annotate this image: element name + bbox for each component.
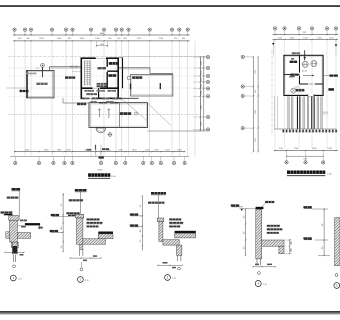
detail 5 level text 24.20 [303, 237, 311, 239]
right plan left vertical dimension band [252, 57, 254, 152]
right plan slope label [289, 76, 294, 78]
left wing thick left wall [26, 70, 28, 98]
left plan right dimension band [199, 57, 201, 132]
detail 4 level text 32.45 [231, 204, 239, 206]
top border line [0, 5, 340, 7]
detail 1 gutter bottom hatch [17, 233, 30, 239]
parapet connector wing to core [49, 67, 51, 71]
detail 5 level text 32.45 [303, 206, 311, 208]
detail 2 roof slab hatch [98, 234, 113, 239]
detail 1 small annotation right of cap [20, 220, 27, 222]
detail 2 reference bubble [78, 277, 84, 283]
svg-text:150: 150 [243, 216, 245, 219]
detail 4 right side dimension [289, 239, 291, 254]
detail 1 lower beam dark fill [13, 246, 18, 254]
right plan internal horizontal wall left [284, 74, 300, 76]
right plan fan symbol 2 [311, 61, 317, 67]
svg-text:980: 980 [255, 90, 257, 93]
right plan left outside level mark [272, 40, 274, 55]
left plan vertical grid lines [14, 41, 16, 157]
detail 3 roof slab black bar [175, 231, 196, 233]
detail 1 bottom dimension [5, 251, 24, 253]
left plan top dimension band [13, 34, 190, 36]
core internal horizontal wall upper [107, 70, 118, 72]
lower room column centerline marks [98, 109, 100, 118]
detail 4 slab hatch [262, 240, 284, 246]
detail 3 parapet wall hatch [159, 222, 163, 242]
detail 1 reference bubble 1 [10, 275, 16, 281]
bottom border line [0, 311, 340, 313]
right plan level flag right outside lower [328, 88, 334, 91]
svg-text:1:20: 1:20 [172, 278, 176, 280]
detail 4 down leg hatch [279, 246, 284, 254]
svg-text:250: 250 [140, 240, 142, 243]
detail 2 second annotation [69, 199, 83, 201]
right plan vertical grid lines [274, 40, 276, 149]
right plan top grid bubbles [274, 30, 276, 34]
core bottom band extension right [118, 97, 138, 99]
left plan bottom boundary line [148, 130, 207, 132]
detail 1 leader line [18, 191, 20, 216]
svg-text:160: 160 [243, 232, 245, 235]
svg-text:250: 250 [61, 246, 63, 249]
left wing parapet outer wall [27, 70, 54, 98]
lower room internal wall [119, 103, 121, 128]
detail 1 top annotation [12, 188, 21, 190]
svg-text:450: 450 [61, 204, 63, 207]
right plan dash-dot boundary line [271, 50, 273, 135]
core lower annotation rows [97, 83, 107, 85]
left plan horizontal grid line row E [8, 95, 80, 97]
svg-text:120: 120 [322, 224, 324, 227]
detail 2 parapet wall hatch [77, 218, 83, 244]
core dim text row mid [85, 90, 95, 92]
dimension text row under core bottom [82, 98, 90, 100]
svg-text:300: 300 [61, 227, 63, 230]
left plan title roof plan [88, 173, 110, 177]
roof slope diagonal right of lower room [148, 104, 171, 126]
roof vent semicircle [96, 128, 106, 133]
left wing top annotation [26, 73, 37, 75]
detail 2 level text 32.45 [51, 214, 59, 216]
middle room vent circle symbol [127, 76, 130, 79]
svg-text:1500: 1500 [201, 71, 203, 75]
svg-text:7128: 7128 [303, 158, 307, 160]
left plan right grid bubbles [206, 55, 209, 58]
right plan louver dark pipe group 2 [311, 96, 312, 129]
svg-text:18900: 18900 [97, 170, 103, 172]
svg-text:7128: 7128 [302, 32, 306, 34]
detail 1 wall pipes below [12, 255, 14, 263]
left plan bottom full grid line [10, 155, 189, 157]
detail 4 top annotation [265, 201, 274, 203]
detail 2 cap annotations dark [66, 212, 79, 214]
detail 4 right annotation rows [267, 225, 280, 227]
detail 3 parapet cap hatch [157, 218, 163, 222]
right plan total dimension line [287, 155, 324, 157]
right plan machine room outer walls [284, 55, 323, 95]
left plan horizontal grid line row B [8, 67, 207, 69]
svg-text:1500: 1500 [201, 122, 203, 126]
detail 2 roof slab black bar [98, 232, 113, 234]
svg-text:300: 300 [140, 230, 142, 233]
svg-text:150: 150 [243, 247, 245, 250]
core internal horizontal wall lower [81, 87, 118, 89]
detail 2 top annotation [75, 189, 87, 191]
left wing bubble leader [42, 67, 44, 77]
detail 3 reference bubble [165, 275, 171, 281]
right plan internal horizontal wall right [300, 83, 323, 85]
right plan lower left dim lines [274, 96, 276, 129]
stepped parapet lower run [150, 72, 173, 74]
svg-text:1500: 1500 [201, 84, 203, 88]
detail 2 right annotation rows [87, 218, 100, 220]
detail 2 parapet cap hatch [76, 214, 84, 218]
detail 4 small circle [258, 272, 261, 275]
svg-text:450: 450 [140, 205, 142, 208]
right plan water tank label [295, 89, 304, 92]
middle room label [132, 76, 142, 79]
svg-text:2400: 2400 [100, 44, 104, 46]
core internal vertical wall [106, 58, 108, 88]
left plan bottom dimension band [14, 151, 185, 153]
left plan dashed reference line [8, 114, 200, 116]
core room label water tank [108, 74, 116, 77]
connector annotation text [70, 66, 78, 68]
stair ladder pattern [84, 61, 86, 86]
right plan roof level mark on top wall [304, 50, 306, 60]
detail 1 parapet wall hatch [10, 220, 18, 242]
middle room column mark left [130, 84, 132, 90]
detail 4 vertical dimension line [245, 209, 247, 256]
detail 3 vertical dimension line [141, 196, 143, 251]
detail 1 slab end tick and text [39, 225, 41, 229]
left plan bottom grid bubbles [14, 156, 16, 161]
detail 1 second annotation [7, 197, 19, 199]
detail 4 reference bubble 4 [255, 281, 261, 287]
detail 1 lower wall lines [12, 242, 14, 254]
right plan waterproof mortar label on wall [291, 74, 299, 76]
detail 3 small circle [178, 267, 181, 270]
left plan bottom band center cluster [95, 145, 97, 157]
detail 2 small circle [80, 268, 83, 271]
lower room detail bubble [134, 112, 137, 115]
left wing parapet inner wall line [28, 72, 53, 97]
right plan louver bottom line [274, 128, 337, 130]
detail 5 reference bubble clipped [334, 283, 340, 289]
svg-text:1500: 1500 [201, 78, 203, 82]
lower stair room walls [89, 103, 148, 128]
detail 4 wall cap dark [256, 207, 264, 209]
left plan horizontal grid line row C [8, 87, 207, 89]
svg-text:1500: 1500 [201, 91, 203, 95]
core room label elevator machine room [109, 62, 119, 65]
svg-text:1:100: 1:100 [327, 173, 332, 175]
core middle annotation [98, 67, 107, 69]
detail 5 wall hatch at image edge [335, 218, 340, 266]
left wing roof text [36, 83, 47, 85]
left plan horizontal grid line row A [8, 56, 207, 58]
detail 2 gutter bottom hatch [83, 239, 106, 244]
manhole label below core [77, 103, 86, 106]
middle room column mark right [159, 83, 161, 89]
svg-text:24.20: 24.20 [323, 112, 328, 114]
detail 3 leg pipes below [177, 255, 179, 261]
detail 2 leader line [79, 192, 81, 214]
svg-text:1500: 1500 [201, 61, 203, 65]
right plan bottom dimension band [274, 149, 338, 151]
right plan slope arrow [303, 75, 313, 77]
right plan louver bottom break band [283, 130, 285, 133]
left plan horizontal grid line row D [8, 75, 202, 77]
detail 5 lower tick line [318, 255, 330, 257]
detail 1 left attached block hatch [6, 232, 10, 239]
core top wall door opening [96, 57, 106, 59]
svg-text:26.60: 26.60 [302, 70, 308, 72]
stepped parapet from core upper [119, 67, 150, 69]
core lower band annotation [86, 93, 97, 95]
right plan fan symbol 1 [302, 61, 308, 67]
detail 2 vertical dimension line [62, 193, 64, 252]
detail 1 wall below hatch [12, 242, 19, 248]
svg-text:150: 150 [322, 247, 324, 250]
detail 3 level text 32.45 [130, 213, 138, 215]
right plan level flag right outside upper [323, 75, 329, 77]
right plan internal vertical wall [299, 55, 301, 84]
svg-text:2%: 2% [36, 68, 39, 70]
detail 4 wall hatch [256, 209, 262, 259]
detail 4 bottom dimension [253, 266, 275, 268]
detail 3 down leg hatch [177, 245, 182, 255]
svg-text:24.20: 24.20 [295, 86, 300, 88]
right plan louver dark pipe group 1 [297, 96, 298, 129]
left wing level flag symbol [20, 90, 29, 92]
right plan louver pipes below [287, 96, 289, 129]
roof dark text between wing and core [65, 76, 75, 78]
detail 4 wall pipes below [256, 259, 258, 266]
svg-text:2350: 2350 [255, 138, 257, 142]
right plan left grid bubbles [241, 55, 244, 58]
middle room walls [130, 75, 173, 97]
detail 3 level text 5.140 [130, 224, 138, 226]
right plan elevator machine room label [290, 61, 297, 63]
detail 3 bottom dimension [158, 264, 183, 266]
left plan top grid bubbles [14, 31, 16, 35]
detail 1 small circle [13, 265, 16, 268]
svg-text:3130: 3130 [255, 70, 257, 74]
lower room small annotation [91, 101, 97, 103]
right plan title machine room roof plan [287, 171, 325, 174]
svg-text:1:20: 1:20 [263, 284, 267, 286]
right plan bottom grid bubbles [286, 150, 288, 160]
detail 5 vertical dimension line [323, 209, 325, 256]
svg-text:1500: 1500 [201, 105, 203, 109]
svg-text:1:100: 1:100 [111, 176, 117, 178]
right plan right outside level mark [335, 40, 337, 55]
detail 3 second annotation [148, 202, 165, 204]
core bottom wall opening [86, 97, 94, 99]
stepped parapet vertical step [149, 68, 151, 74]
left plan right boundary line [199, 57, 201, 132]
svg-text:1:20: 1:20 [85, 280, 89, 282]
detail 1 left annotation with underline [1, 211, 13, 213]
stair core thick walls [81, 58, 118, 98]
detail 1 roof slab black bar [25, 223, 40, 225]
level mark circle below lower room [108, 133, 112, 137]
roof slope diagonal from core corner [122, 99, 148, 122]
detail 3 roof slab hatch [175, 233, 196, 238]
svg-text:7.20: 7.20 [309, 84, 313, 86]
detail 3 leader line [158, 195, 160, 218]
step between wing and lower room [62, 98, 64, 103]
detail 3 gutter bottom hatch [163, 240, 179, 245]
svg-text:4340: 4340 [255, 110, 257, 114]
left wing internal grid bubble [41, 64, 45, 68]
detail 2 bottom dimension [70, 257, 101, 259]
detail 2 wall below [80, 244, 83, 250]
right plan door opening bottom wall [308, 94, 314, 97]
right plan floor drain circle [291, 88, 296, 93]
detail 3 right annotation rows [169, 218, 181, 220]
detail 1 parapet cap hatch [9, 216, 19, 221]
svg-text:1:20: 1:20 [18, 278, 22, 280]
right plan top dimension band [273, 34, 339, 36]
detail 2 level text 5.140 [50, 230, 58, 232]
core lower band internal wall [98, 88, 100, 98]
lower room label stair exit [120, 112, 131, 115]
detail 3 top annotation [151, 192, 166, 194]
core shaft wall right [122, 58, 124, 89]
detail 5 small circle [335, 274, 338, 277]
